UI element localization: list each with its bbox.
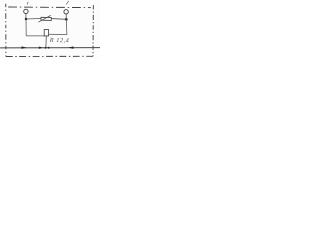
varistor RV1 diagonal stroke (38, 15, 50, 22)
enclosure dash-dot border left (5, 4, 7, 57)
wire left branch horizontal (26, 35, 44, 37)
enclosure dash-dot border bottom (6, 55, 93, 57)
current arrow A3 left-pointing (47, 47, 49, 49)
wire side tap from R1 to right branch (49, 33, 67, 35)
terminal label 2 (66, 1, 68, 5)
terminal T2 circle (64, 10, 68, 14)
resistor R1 body (44, 30, 48, 36)
wire top right segment (51, 18, 66, 21)
terminal label 1 (27, 2, 28, 5)
current arrow A2 right-pointing (39, 47, 43, 49)
terminal T2 stub below (65, 14, 67, 18)
enclosure dash-dot border top (8, 6, 91, 9)
node A junction dot left (25, 18, 28, 21)
current arrow A4 left-pointing (68, 46, 73, 49)
wire left branch vertical (25, 19, 27, 36)
wire right branch vertical (65, 19, 68, 34)
node B junction dot right (65, 18, 68, 21)
wire bottom through conductor (0, 47, 100, 49)
resistor R1 bottom lead (45, 36, 47, 47)
enclosure dash-dot border right (92, 5, 94, 56)
svg-text:R 12,4: R 12,4 (49, 37, 70, 44)
background (0, 0, 100, 58)
node C junction dot bottom (45, 47, 47, 49)
current arrow A1 right-pointing (21, 46, 26, 49)
terminal T1 circle (24, 9, 28, 13)
terminal T1 stub below (25, 14, 27, 18)
varistor RV1 body (41, 17, 51, 20)
wire top left segment (26, 18, 41, 21)
